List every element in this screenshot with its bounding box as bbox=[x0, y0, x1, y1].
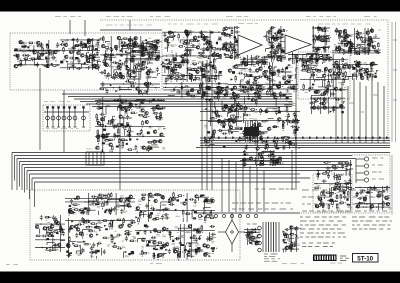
wire bbox=[73, 48, 76, 51]
value label bbox=[120, 196, 124, 197]
wire bbox=[182, 218, 184, 222]
transistor Q86 bbox=[368, 36, 371, 39]
wire bbox=[298, 147, 300, 149]
resistor R332 bbox=[277, 158, 279, 165]
value label bbox=[138, 200, 142, 201]
wire bbox=[20, 59, 31, 61]
transistor Q137 bbox=[121, 76, 124, 79]
value label bbox=[95, 43, 98, 44]
wire bbox=[296, 68, 298, 72]
value label bbox=[323, 38, 327, 39]
audio preamp: wiring spine bbox=[65, 193, 135, 215]
capacitor C288 bbox=[323, 194, 326, 199]
value label bbox=[194, 65, 197, 67]
diode D27 bbox=[164, 66, 169, 68]
transistor Q194 bbox=[322, 102, 325, 105]
diode D13 bbox=[131, 55, 136, 57]
value label bbox=[120, 110, 122, 112]
capacitor C290 bbox=[334, 183, 337, 188]
capacitor C251 bbox=[265, 141, 268, 146]
mixer stage: wiring spine bbox=[100, 36, 160, 78]
value label bbox=[229, 93, 231, 95]
capacitor C185 bbox=[147, 76, 152, 79]
capacitor C306 bbox=[104, 194, 107, 199]
resistor R346 bbox=[329, 200, 336, 202]
transistor Q78 bbox=[309, 56, 312, 59]
squelch amplifier: wiring spine bbox=[332, 28, 380, 55]
capacitor C107 bbox=[275, 34, 278, 39]
wire bbox=[278, 48, 280, 54]
capacitor C310 bbox=[98, 193, 103, 196]
wire bbox=[366, 77, 368, 80]
value label bbox=[198, 80, 202, 81]
transistor Q226 bbox=[148, 215, 151, 218]
IC block bbox=[173, 89, 175, 91]
value label bbox=[329, 185, 333, 186]
resistor R319 bbox=[234, 99, 236, 106]
IC block bbox=[315, 59, 318, 62]
value label bbox=[145, 77, 149, 78]
IC block bbox=[209, 62, 212, 64]
resistor R396 bbox=[139, 211, 141, 218]
IC block bbox=[256, 128, 258, 130]
transistor Q21 bbox=[128, 38, 131, 41]
resistor R365 bbox=[366, 192, 373, 194]
wire bbox=[256, 138, 258, 147]
capacitor C83 bbox=[203, 73, 206, 78]
capacitor C53 bbox=[141, 50, 144, 55]
value label bbox=[378, 49, 381, 50]
capacitor C150 bbox=[269, 69, 272, 74]
horizontal distribution bus bbox=[196, 137, 390, 148]
diode D35 bbox=[223, 53, 228, 55]
transistor Q228 bbox=[142, 197, 145, 200]
resistor R199 bbox=[247, 87, 249, 94]
value label bbox=[190, 64, 192, 66]
resistor R205 bbox=[251, 84, 253, 91]
resistor R87 bbox=[185, 33, 192, 35]
wire bbox=[227, 106, 229, 114]
resistor R168 bbox=[347, 50, 354, 52]
capacitor C76 bbox=[201, 69, 206, 72]
value label bbox=[350, 35, 354, 36]
transistor Q114 bbox=[251, 87, 254, 90]
transistor Q58 bbox=[209, 41, 212, 44]
wire bbox=[205, 63, 209, 65]
IC block bbox=[119, 72, 121, 74]
transistor Q91 bbox=[372, 45, 375, 48]
diode D18 bbox=[194, 70, 199, 72]
value label bbox=[167, 55, 171, 56]
resistor R216 bbox=[338, 65, 340, 72]
wire bbox=[202, 87, 204, 96]
resistor R242 bbox=[157, 99, 164, 101]
channel selector switch S1 bbox=[356, 157, 384, 183]
IC block bbox=[127, 124, 129, 127]
value label bbox=[263, 74, 267, 75]
value label bbox=[340, 105, 343, 107]
transistor Q25 bbox=[146, 71, 149, 74]
squelch gate: wiring spine bbox=[332, 60, 378, 80]
transistor Q97 bbox=[348, 65, 351, 68]
resistor R38 bbox=[148, 55, 155, 57]
IC block bbox=[84, 207, 87, 209]
transistor Q217 bbox=[127, 204, 130, 207]
value label bbox=[212, 90, 214, 92]
value label bbox=[138, 203, 141, 205]
capacitor C265 bbox=[323, 97, 326, 102]
wire bbox=[329, 188, 331, 198]
value label bbox=[109, 125, 112, 126]
capacitor C205 bbox=[148, 100, 153, 103]
resistor R195 bbox=[257, 87, 264, 89]
transistor Q142 bbox=[125, 106, 128, 109]
value label bbox=[230, 78, 232, 80]
transistor Q178 bbox=[273, 93, 276, 96]
capacitor C183 bbox=[125, 80, 130, 83]
transistor Q225 bbox=[205, 199, 208, 202]
capacitor C211 bbox=[103, 135, 108, 138]
value label bbox=[64, 41, 68, 42]
resistor R188 bbox=[368, 74, 370, 81]
wire bbox=[286, 140, 289, 145]
capacitor C148 bbox=[242, 86, 247, 89]
wire bbox=[268, 37, 273, 39]
oscillator stage: wiring spine bbox=[95, 97, 165, 152]
value label bbox=[337, 102, 339, 104]
wire bbox=[119, 39, 122, 48]
diode D40 bbox=[287, 59, 292, 61]
value label bbox=[309, 64, 312, 66]
transistor Q113 bbox=[277, 85, 280, 88]
transistor Q34 bbox=[105, 63, 108, 66]
value label bbox=[170, 54, 174, 56]
transistor Q80 bbox=[335, 48, 338, 51]
capacitor C46 bbox=[149, 43, 154, 46]
capacitor C152 bbox=[258, 75, 263, 78]
wire bbox=[321, 39, 330, 42]
value label bbox=[22, 51, 26, 53]
capacitor C85 bbox=[234, 36, 237, 41]
capacitor C264 bbox=[309, 102, 314, 105]
wire bbox=[350, 39, 352, 47]
wire bbox=[376, 71, 378, 73]
transistor Q81 bbox=[344, 43, 347, 46]
value label bbox=[185, 86, 189, 87]
IC block bbox=[85, 45, 88, 48]
transistor Q24 bbox=[142, 62, 145, 65]
wire bbox=[235, 54, 240, 56]
resistor R32 bbox=[108, 72, 110, 79]
IC block bbox=[326, 55, 329, 57]
resistor R207 bbox=[255, 77, 262, 79]
capacitor C30 bbox=[119, 62, 124, 65]
transistor Q136 bbox=[138, 91, 141, 94]
value label bbox=[286, 100, 288, 102]
capacitor C250 bbox=[214, 110, 219, 113]
wire bbox=[312, 70, 314, 76]
wire bbox=[145, 49, 148, 56]
resistor R404 bbox=[47, 235, 54, 237]
capacitor C195 bbox=[155, 115, 158, 120]
value label bbox=[218, 37, 222, 38]
value label bbox=[321, 27, 324, 29]
wire bbox=[371, 39, 373, 48]
value label bbox=[326, 100, 329, 101]
resistor R284 bbox=[213, 96, 220, 98]
capacitor C176 bbox=[179, 86, 184, 89]
transistor Q1 bbox=[37, 41, 40, 44]
resistor R236 bbox=[214, 91, 221, 93]
transistor Q36 bbox=[140, 45, 143, 48]
wire bbox=[293, 60, 295, 65]
transistor Q52 bbox=[211, 53, 214, 56]
value label bbox=[376, 191, 380, 193]
diode D57 bbox=[107, 120, 112, 122]
value label bbox=[89, 204, 93, 206]
IC block bbox=[209, 46, 212, 48]
capacitor C106 bbox=[272, 35, 275, 40]
resistor R20 bbox=[94, 53, 96, 60]
value label bbox=[286, 91, 290, 92]
resistor R362 bbox=[347, 191, 349, 198]
wire bbox=[214, 60, 217, 69]
resistor R201 bbox=[235, 75, 237, 82]
transistor Q175 bbox=[267, 127, 270, 130]
value label bbox=[123, 138, 127, 140]
wire bbox=[145, 47, 150, 50]
detector stage: wiring spine bbox=[240, 55, 268, 66]
wire bbox=[272, 45, 274, 50]
value label bbox=[122, 74, 125, 75]
capacitor C329 bbox=[150, 207, 155, 210]
resistor R44 bbox=[120, 73, 122, 80]
resistor R165 bbox=[362, 50, 369, 52]
transistor Q12 bbox=[69, 50, 72, 53]
wire bbox=[303, 54, 305, 62]
capacitor C142 bbox=[369, 73, 374, 76]
wire bbox=[277, 36, 279, 41]
wire bbox=[295, 74, 297, 79]
capacitor C311 bbox=[110, 207, 113, 212]
value label bbox=[192, 61, 196, 62]
capacitor C78 bbox=[163, 32, 166, 37]
resistor R103 bbox=[185, 42, 192, 44]
value label bbox=[267, 83, 271, 85]
capacitor C285 bbox=[341, 164, 344, 169]
value label bbox=[266, 30, 269, 32]
value label bbox=[277, 48, 280, 50]
resistor R371 bbox=[377, 194, 384, 196]
value label bbox=[264, 73, 268, 74]
capacitor C154 bbox=[264, 76, 269, 79]
value label bbox=[317, 185, 320, 186]
resistor R300 bbox=[242, 86, 249, 88]
capacitor C151 bbox=[249, 68, 252, 73]
wire bbox=[140, 215, 147, 218]
resistor R311 bbox=[278, 106, 280, 113]
mic amplifier: wiring spine bbox=[35, 215, 65, 252]
diode D69 bbox=[260, 110, 265, 112]
resistor R96 bbox=[165, 59, 172, 61]
IC block bbox=[360, 73, 363, 76]
resistor R25 bbox=[88, 46, 90, 53]
wire bbox=[307, 54, 318, 57]
value label bbox=[139, 54, 143, 55]
diode D8 bbox=[65, 60, 70, 62]
wire bbox=[333, 65, 335, 69]
resistor R174 bbox=[361, 41, 368, 43]
capacitor C256 bbox=[292, 118, 297, 121]
transistor Q183 bbox=[252, 133, 255, 136]
wire bbox=[186, 51, 188, 54]
transistor Q231 bbox=[195, 195, 198, 198]
IC block bbox=[116, 146, 119, 148]
resistor R177 bbox=[350, 49, 352, 56]
capacitor C269 bbox=[267, 154, 272, 157]
wire bbox=[229, 131, 239, 134]
capacitor C213 bbox=[159, 114, 162, 119]
diode D2 bbox=[45, 61, 50, 63]
wire bbox=[163, 128, 166, 130]
wire bbox=[79, 211, 84, 213]
value label bbox=[151, 204, 153, 206]
value label bbox=[139, 111, 142, 113]
transistor Q67 bbox=[230, 55, 233, 58]
value label bbox=[371, 44, 374, 46]
diode D85 bbox=[174, 209, 179, 211]
value label bbox=[134, 63, 136, 65]
wire bbox=[104, 201, 106, 207]
IC block bbox=[89, 55, 92, 57]
wire bbox=[235, 67, 248, 69]
value label bbox=[190, 73, 192, 75]
resistor R326 bbox=[234, 116, 241, 118]
transistor Q152 bbox=[129, 104, 132, 107]
resistor R70 bbox=[203, 36, 210, 38]
transistor Q210 bbox=[370, 205, 373, 208]
top rail labels bbox=[106, 24, 371, 26]
value label bbox=[124, 113, 128, 115]
wire bbox=[313, 101, 315, 105]
value label bbox=[47, 57, 51, 59]
resistor R361 bbox=[334, 183, 341, 185]
value label bbox=[170, 90, 174, 91]
value label bbox=[125, 204, 128, 205]
value label bbox=[337, 191, 340, 193]
transistor Q139 bbox=[144, 82, 147, 85]
capacitor C21 bbox=[73, 47, 76, 52]
wire bbox=[251, 57, 258, 59]
capacitor C253 bbox=[287, 86, 292, 89]
resistor R170 bbox=[344, 51, 351, 53]
value label bbox=[56, 46, 59, 47]
noise amp stage: wiring spine bbox=[312, 26, 330, 52]
resistor R35 bbox=[155, 41, 162, 43]
capacitor C165 bbox=[330, 93, 335, 96]
value label bbox=[323, 56, 325, 57]
wire bbox=[253, 85, 258, 87]
capacitor C231 bbox=[207, 136, 212, 139]
resistor R232 bbox=[190, 95, 197, 97]
wire bbox=[226, 33, 232, 35]
wire bbox=[141, 42, 153, 44]
resistor R180 bbox=[343, 30, 345, 37]
resistor R33 bbox=[136, 64, 138, 71]
resistor R30 bbox=[151, 48, 158, 50]
transistor Q164 bbox=[218, 119, 221, 122]
transistor Q118 bbox=[335, 61, 338, 64]
transistor Q229 bbox=[136, 207, 139, 210]
resistor R56 bbox=[149, 56, 151, 63]
resistor R268 bbox=[136, 133, 143, 135]
resistor R75 bbox=[202, 65, 209, 67]
wire bbox=[116, 206, 130, 208]
transistor Q82 bbox=[349, 46, 352, 49]
wire bbox=[98, 211, 100, 215]
transistor Q59 bbox=[193, 36, 196, 39]
transistor Q186 bbox=[214, 111, 217, 114]
value label bbox=[157, 213, 160, 215]
diode D77 bbox=[271, 153, 276, 155]
value label bbox=[271, 91, 274, 92]
capacitor C191 bbox=[106, 89, 109, 94]
resistor R325 bbox=[229, 122, 231, 129]
IC block bbox=[278, 55, 281, 57]
capacitor C166 bbox=[301, 65, 306, 68]
resistor R69 bbox=[187, 68, 194, 70]
resistor R136 bbox=[273, 55, 280, 57]
value label bbox=[250, 144, 253, 146]
wire bbox=[147, 42, 154, 44]
capacitor C31 bbox=[149, 68, 152, 73]
wire bbox=[343, 187, 352, 189]
wire bbox=[232, 115, 234, 124]
wire bbox=[173, 61, 181, 63]
resistor R64 bbox=[198, 52, 205, 54]
resistor R149 bbox=[316, 27, 323, 29]
capacitor C48 bbox=[137, 61, 140, 66]
value label bbox=[119, 146, 124, 147]
resistor R265 bbox=[117, 129, 119, 136]
resistor R282 bbox=[203, 91, 205, 98]
value label bbox=[135, 50, 138, 52]
IC block bbox=[218, 37, 221, 39]
resistor R58 bbox=[155, 46, 157, 53]
value label bbox=[201, 48, 204, 50]
capacitor C92 bbox=[225, 47, 228, 52]
value label bbox=[74, 59, 76, 61]
capacitor C79 bbox=[169, 31, 174, 34]
resistor R337 bbox=[339, 202, 346, 204]
resistor R386 bbox=[138, 217, 140, 224]
value label bbox=[120, 140, 123, 141]
wire bbox=[202, 52, 204, 55]
resistor R123 bbox=[225, 35, 232, 37]
transistor Q43 bbox=[178, 65, 181, 68]
transistor Q160 bbox=[159, 139, 162, 142]
diode D46 bbox=[353, 61, 358, 63]
resistor R233 bbox=[225, 87, 227, 94]
resistor R92 bbox=[215, 75, 217, 82]
capacitor C128 bbox=[346, 41, 349, 46]
wire bbox=[106, 41, 111, 43]
value label bbox=[153, 41, 157, 42]
wire bbox=[99, 135, 101, 141]
IC block bbox=[200, 195, 203, 197]
capacitor C49 bbox=[140, 47, 145, 50]
value label bbox=[213, 59, 216, 61]
